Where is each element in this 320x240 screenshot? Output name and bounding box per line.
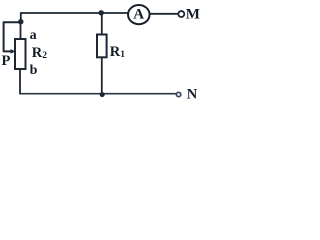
wire: bottom rail: [20, 93, 176, 95]
wire: left branch from top node down to wiper: [4, 22, 21, 51]
junction dot: bottom of R1 on bottom rail: [100, 92, 105, 97]
svg-text:b: b: [30, 63, 38, 78]
wire: jog from junction up to top rail: [20, 13, 22, 22]
svg-text:N: N: [187, 87, 198, 103]
terminal M circle: [178, 11, 184, 17]
wire: R1 bottom lead: [101, 57, 103, 93]
terminal N circle: [176, 92, 180, 96]
wire: R2 bottom lead: [19, 69, 21, 94]
wiper arrow P pointing into rheostat R2: [11, 49, 16, 54]
wire: top rail to ammeter: [21, 12, 128, 14]
svg-text:P: P: [2, 53, 11, 69]
wire: ammeter to terminal M: [150, 13, 177, 15]
rheostat R2 body: [15, 39, 26, 69]
svg-text:A: A: [133, 7, 144, 23]
wire: R2 top lead: [20, 22, 22, 39]
junction dot: node a (top of R2 / top rail): [18, 19, 23, 24]
resistor R1 body: [97, 35, 107, 58]
svg-text:a: a: [30, 28, 37, 43]
junction dot: top of R1 on top rail: [99, 10, 104, 15]
ammeter U1 circle: [128, 5, 150, 24]
wire: R1 top lead: [101, 13, 103, 35]
svg-text:M: M: [186, 6, 200, 22]
